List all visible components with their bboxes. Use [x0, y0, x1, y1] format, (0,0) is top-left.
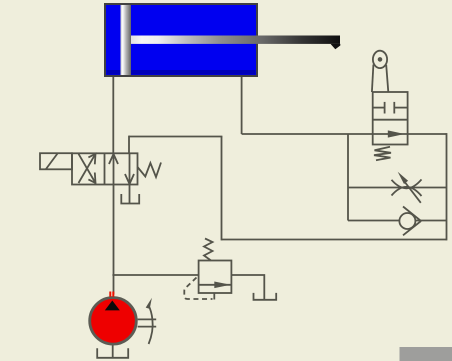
wire cylinder left port to valve	[112, 77, 114, 153]
relief valve pilot stub	[213, 293, 215, 300]
wire pump junction to relief valve	[112, 274, 198, 276]
status bar corner	[400, 347, 452, 361]
relief valve spring	[204, 239, 213, 261]
check valve ball	[399, 213, 415, 229]
pump variable arrow	[146, 298, 153, 344]
pump P1	[90, 298, 137, 345]
roller valve flow arrow	[388, 130, 405, 137]
throttle valve upper arc	[392, 179, 422, 188]
tank T1 below valve	[121, 194, 139, 204]
cylinder piston	[121, 5, 132, 75]
straight arrow up	[109, 154, 118, 185]
valve V1 return spring	[138, 163, 162, 178]
directional valve V1 body	[72, 153, 138, 184]
wire pump tank feed	[112, 345, 114, 358]
wire right vertical	[446, 133, 448, 240]
roller valve V2 lever	[372, 65, 388, 93]
cylinder rod	[131, 36, 340, 44]
relief valve internal flow	[199, 282, 232, 289]
check valve seat	[403, 207, 421, 236]
relief valve pilot line dashed	[184, 278, 212, 300]
roller valve V2 roller	[373, 51, 387, 68]
wire throttle branch	[348, 187, 447, 189]
wire valve tank feed	[129, 185, 131, 204]
wire check branch	[348, 220, 447, 222]
pump flow triangle	[105, 301, 120, 311]
tank T2 relief valve	[254, 293, 277, 300]
wire cylinder right port down	[241, 77, 243, 134]
wire pump to valve	[113, 185, 115, 295]
throttle adjust arrow	[398, 172, 421, 203]
pump variable ticks	[138, 319, 157, 326]
node junction drop	[347, 134, 349, 221]
roller valve spring	[374, 147, 391, 160]
straight arrow down	[125, 154, 134, 185]
directional valve V1 actuator	[40, 153, 72, 169]
throttle valve lower arc	[392, 187, 422, 196]
wire upper horizontal from valve	[129, 136, 222, 138]
roller valve V2 body	[373, 92, 408, 145]
relief valve V3 body	[199, 261, 232, 294]
wire main horizontal to roller valve and beyond	[242, 133, 447, 135]
crossed arrow up-right	[79, 154, 96, 183]
crossed arrow down-right	[79, 154, 96, 183]
wire relief output	[231, 275, 264, 299]
pump port mark red	[109, 292, 114, 297]
rod tip marker	[331, 44, 341, 49]
tank T3 pump	[97, 348, 128, 358]
wire left vertical return	[221, 137, 223, 241]
wire valve B port up	[128, 136, 130, 154]
roller valve blocked position symbol	[373, 102, 408, 114]
cylinder C1 body	[105, 4, 257, 76]
wire bottom horizontal	[222, 239, 447, 241]
